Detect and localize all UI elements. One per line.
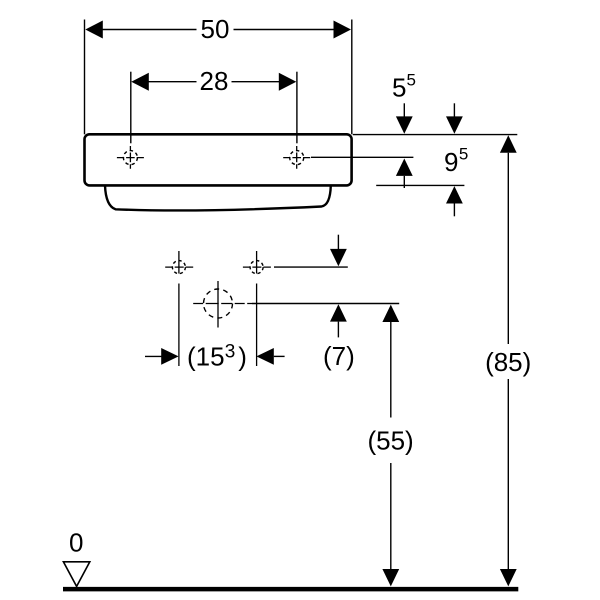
dimension 55 upper arrow xyxy=(382,305,399,418)
dimension 50 line xyxy=(100,29,336,31)
dimension 28 arrowhead right xyxy=(279,73,297,91)
dimension 15.3 left arrow xyxy=(145,348,179,365)
dimension 7 lower arrow xyxy=(330,304,347,337)
svg-text:0: 0 xyxy=(69,527,83,557)
dimension 15.3 right arrow xyxy=(256,348,284,365)
svg-text:3: 3 xyxy=(225,342,236,363)
dimension 28 extension line right xyxy=(296,72,298,144)
svg-text:5: 5 xyxy=(392,73,406,103)
reference line supply level xyxy=(274,266,348,268)
svg-text:50: 50 xyxy=(201,14,230,44)
dimension 28 extension line left xyxy=(130,72,132,144)
right tap hole xyxy=(283,146,310,169)
washbasin top rim outline xyxy=(85,134,352,185)
left water supply connection xyxy=(165,251,193,366)
dimension 50 extension line left xyxy=(84,20,86,135)
dimension 85 upper arrow xyxy=(500,135,517,344)
dimension 55 lower arrow xyxy=(382,463,399,586)
dimension 28 arrowhead left xyxy=(131,73,149,91)
svg-text:(7): (7) xyxy=(323,341,355,371)
svg-text:28: 28 xyxy=(200,66,229,96)
svg-text:): ) xyxy=(238,341,247,371)
svg-text:(85): (85) xyxy=(485,347,531,377)
reference line basin top level xyxy=(353,134,518,136)
reference line tap hole level xyxy=(311,156,413,158)
reference line basin bottom level xyxy=(376,184,464,186)
washbasin apron outline xyxy=(105,185,331,210)
left tap hole xyxy=(117,146,144,169)
svg-text:(55): (55) xyxy=(367,425,413,455)
svg-text:5: 5 xyxy=(459,145,468,164)
dimension 9.5 upper arrow xyxy=(446,103,463,134)
datum triangle xyxy=(63,562,89,587)
dimension 7 upper arrow xyxy=(330,235,347,267)
floor line xyxy=(63,587,518,592)
svg-text:9: 9 xyxy=(444,147,458,177)
dimension 50 arrowhead left xyxy=(85,21,103,39)
dimension 50 extension line right xyxy=(351,20,353,135)
dimension 5.5 upper arrow xyxy=(396,103,413,134)
right water supply connection xyxy=(243,251,271,366)
dimension 50 arrowhead right xyxy=(334,21,352,39)
svg-text:(15: (15 xyxy=(187,341,225,371)
dimension 28 line xyxy=(147,81,280,83)
svg-text:5: 5 xyxy=(407,71,416,90)
reference line drain level xyxy=(252,303,399,305)
drain outlet dashed circle xyxy=(193,281,252,328)
dimension 85 lower arrow xyxy=(500,379,517,586)
dimension 5.5 lower arrow xyxy=(396,159,413,189)
dimension 9.5 lower arrow xyxy=(446,186,463,216)
